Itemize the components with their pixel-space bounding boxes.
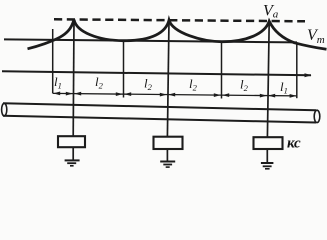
ground 1 [65, 160, 80, 165]
feeder pipe right end cap [314, 110, 320, 122]
feeder pipe top line [3, 103, 316, 110]
mean voltage level line [4, 39, 297, 42]
stub box1 to ground [72, 147, 74, 160]
stub box3 to ground [266, 149, 268, 163]
midspan vertical B [123, 41, 125, 98]
reference line (rail potential) with arrow [2, 71, 311, 75]
contact wire voltage curve [28, 20, 327, 50]
midspan vertical D [296, 42, 298, 98]
stub box2 to ground [166, 149, 168, 161]
midspan vertical A [52, 29, 54, 94]
svg-text:кс: кс [287, 136, 301, 152]
dashed max-voltage level line Va [54, 19, 305, 21]
midspan vertical C [221, 42, 223, 99]
dimension arrowheads [53, 92, 60, 96]
support 2 vertical [167, 20, 169, 137]
ground 2 [160, 162, 175, 168]
support 3 vertical [267, 21, 269, 137]
feeder pipe left end cap [2, 103, 7, 116]
dimension line [53, 93, 297, 96]
support 1 vertical [72, 20, 75, 137]
box 3 [254, 137, 283, 149]
feeder pipe bottom line [3, 116, 316, 123]
box 1 (grounding device) [58, 136, 85, 147]
box 2 [154, 137, 183, 149]
ground 3 [261, 163, 274, 169]
